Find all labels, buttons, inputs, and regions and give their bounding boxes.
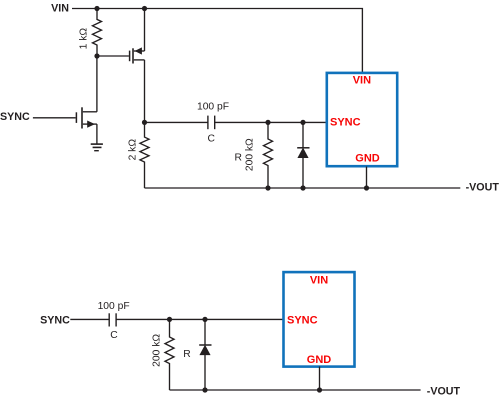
junction C-row / D1 anode-top	[300, 120, 305, 125]
value label 200 kOhm (top)	[245, 138, 256, 171]
svg-text:SYNC: SYNC	[0, 111, 30, 123]
svg-text:GND: GND	[355, 153, 380, 165]
diode D1	[297, 122, 309, 188]
junction C-row / D2 top (bottom circuit)	[202, 317, 207, 322]
wire VIN top rail	[72, 9, 362, 73]
svg-text:GND: GND	[307, 354, 332, 366]
IC U2 box	[284, 272, 355, 367]
resistor R1 1 kOhm	[93, 9, 102, 57]
transistor Q2 NMOS	[76, 107, 97, 128]
svg-text:VIN: VIN	[353, 75, 371, 87]
value label 2 kOhm	[127, 139, 138, 161]
svg-text:SYNC: SYNC	[330, 117, 361, 129]
junction C-row / Q1 drain / R2 top	[142, 120, 147, 125]
junction bottom rail / D1 bottom	[300, 185, 305, 190]
svg-text:C: C	[207, 134, 215, 145]
svg-text:100 pF: 100 pF	[98, 301, 130, 312]
svg-text:100 pF: 100 pF	[197, 102, 229, 113]
junction R1 bottom / Q1 gate / Q2 drain node	[94, 53, 99, 58]
svg-text:C: C	[110, 330, 118, 341]
svg-text:R: R	[183, 349, 190, 360]
svg-text:VIN: VIN	[51, 3, 69, 15]
svg-text:SYNC: SYNC	[40, 314, 70, 326]
capacitor C 100 pF (top)	[208, 116, 215, 130]
transistor Q1 PMOS	[130, 47, 145, 63]
wire Q1 source up to VIN rail	[144, 9, 146, 52]
wire Q1 drain down to C node	[144, 60, 146, 123]
wire SYNC to C (bottom)	[70, 318, 109, 320]
resistor R2 2 kOhm	[140, 122, 149, 188]
ground symbol	[91, 144, 103, 151]
resistor R3 R 200 kOhm	[264, 122, 273, 188]
wire C-row right segment to U1 SYNC pin	[215, 121, 327, 123]
wire C-row left segment	[145, 121, 208, 123]
svg-text:-VOUT: -VOUT	[466, 182, 499, 194]
wire Q1 gate	[97, 55, 129, 57]
svg-text:R: R	[234, 152, 241, 163]
svg-text:1 kΩ: 1 kΩ	[78, 28, 89, 50]
junction bottom rail / U2 GND	[317, 387, 322, 392]
junction bottom rail / R3 bottom	[265, 185, 270, 190]
junction VIN rail / R1 top	[94, 6, 99, 11]
wire U2 GND pin down	[319, 367, 321, 391]
diode D2	[199, 319, 211, 390]
svg-text:200 kΩ: 200 kΩ	[151, 334, 162, 367]
junction bottom rail / D2 bottom	[202, 387, 207, 392]
capacitor C 100 pF (bottom)	[109, 313, 116, 326]
junction C-row / R3 top	[265, 120, 270, 125]
wire C to U2 SYNC pin	[116, 318, 283, 320]
svg-text:VIN: VIN	[310, 274, 328, 286]
junction VIN rail / Q1 source	[142, 6, 147, 11]
svg-text:2 kΩ: 2 kΩ	[127, 139, 138, 161]
wire Q2 source to ground	[96, 124, 98, 144]
svg-text:-VOUT: -VOUT	[427, 385, 461, 397]
svg-text:200 kΩ: 200 kΩ	[245, 138, 256, 171]
wire Q2 drain up to gate node	[96, 56, 98, 112]
resistor R4 R 200 kOhm (bottom)	[165, 319, 174, 390]
wire U1 GND pin down	[366, 167, 368, 189]
junction C-row / R4 top (bottom circuit)	[167, 317, 172, 322]
wire bottom rail (bottom circuit)	[170, 389, 421, 391]
wire bottom rail (top circuit)	[145, 187, 461, 189]
wire SYNC to Q2 gate	[33, 117, 76, 119]
junction bottom rail / U1 GND	[364, 185, 369, 190]
value label 1 kOhm	[78, 28, 89, 50]
svg-text:SYNC: SYNC	[287, 315, 318, 327]
IC U1 box	[327, 73, 397, 166]
value label 200 kOhm (bottom)	[151, 334, 162, 367]
